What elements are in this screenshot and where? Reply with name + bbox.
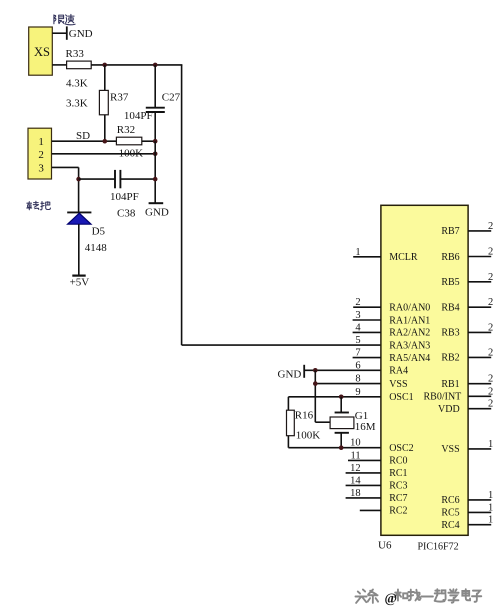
wire R32 right bbox=[142, 140, 155, 142]
svg-text:OSC2: OSC2 bbox=[389, 443, 413, 454]
capacitor C38 bbox=[79, 170, 156, 188]
svg-text:22: 22 bbox=[488, 374, 493, 385]
pin 24 RB3 bbox=[441, 322, 493, 338]
pin 20 VDD bbox=[438, 399, 493, 415]
svg-text:12: 12 bbox=[350, 463, 361, 474]
svg-text:25: 25 bbox=[488, 297, 493, 308]
svg-text:R32: R32 bbox=[117, 124, 135, 136]
svg-text:RC2: RC2 bbox=[389, 506, 407, 517]
crystal G1 16M bbox=[330, 397, 354, 448]
node: crystal bottom junction bbox=[339, 445, 344, 450]
svg-text:28: 28 bbox=[488, 221, 493, 232]
node: crystal top junction bbox=[339, 395, 344, 400]
svg-text:R37: R37 bbox=[110, 91, 129, 103]
node: R37 bottom junction bbox=[103, 139, 108, 144]
wire R33 to node row, corner down the long net bbox=[91, 65, 381, 345]
label 限速 (speed-limit) bbox=[54, 14, 75, 24]
resistor R32 bbox=[116, 137, 141, 145]
pin 17 RC6 bbox=[441, 490, 493, 506]
svg-text:RC7: RC7 bbox=[389, 493, 407, 504]
svg-text:3: 3 bbox=[355, 310, 360, 321]
svg-text:GND: GND bbox=[278, 369, 302, 381]
pin 22 RB1 bbox=[441, 374, 493, 390]
diode D5 (4148) bbox=[67, 212, 91, 275]
pin 14 RC3 bbox=[346, 475, 408, 491]
node: C38 right junction bbox=[153, 177, 158, 182]
svg-text:PIC16F72: PIC16F72 bbox=[418, 541, 459, 552]
svg-text:4: 4 bbox=[355, 322, 361, 333]
pin 2 RA0/AN0 bbox=[353, 297, 430, 313]
pin 12 RC1 bbox=[346, 463, 408, 479]
svg-text:104PF: 104PF bbox=[124, 110, 153, 122]
capacitor C27 bbox=[146, 65, 165, 141]
svg-text:6: 6 bbox=[355, 360, 360, 371]
svg-text:MCLR: MCLR bbox=[389, 252, 418, 263]
pin 23 RB2 bbox=[441, 347, 493, 363]
svg-text:5: 5 bbox=[355, 335, 360, 346]
node: C27 top junction bbox=[153, 63, 158, 68]
wire R37 top bbox=[104, 65, 106, 91]
power symbol GND (top, at XS) bbox=[52, 26, 67, 39]
svg-text:RA1/AN1: RA1/AN1 bbox=[389, 315, 430, 326]
label 转把 (throttle) bbox=[27, 201, 51, 209]
svg-text:RB5: RB5 bbox=[441, 277, 459, 288]
node: pin2 row junction bbox=[153, 152, 158, 157]
node: RA4 gnd junction bbox=[313, 368, 318, 373]
svg-text:R16: R16 bbox=[295, 409, 314, 421]
svg-text:7: 7 bbox=[355, 348, 360, 359]
svg-text:4.3K: 4.3K bbox=[66, 78, 88, 90]
svg-text:100K: 100K bbox=[296, 429, 321, 441]
node: VSS gnd junction bbox=[313, 381, 318, 386]
pin 8 VSS bbox=[355, 374, 407, 390]
svg-text:R33: R33 bbox=[66, 48, 85, 60]
svg-text:20: 20 bbox=[488, 399, 493, 410]
wire pin1 row to R32 bbox=[52, 140, 117, 142]
pin 7 RA5/AN4 bbox=[353, 348, 431, 364]
svg-text:2: 2 bbox=[355, 297, 360, 308]
svg-text:16: 16 bbox=[488, 502, 493, 513]
pin 18 RC7 bbox=[346, 488, 408, 504]
svg-text:23: 23 bbox=[488, 347, 493, 358]
svg-text:RB3: RB3 bbox=[441, 328, 459, 339]
svg-text:24: 24 bbox=[488, 322, 493, 333]
svg-text:+5V: +5V bbox=[70, 276, 90, 288]
svg-text:G1: G1 bbox=[355, 410, 368, 422]
pin 6 RA4 bbox=[355, 360, 408, 376]
connector 1-2-3 (throttle) bbox=[28, 128, 52, 179]
svg-text:RA0/AN0: RA0/AN0 bbox=[389, 303, 430, 314]
svg-text:VSS: VSS bbox=[389, 379, 407, 390]
ground symbol (C38 net) bbox=[149, 202, 164, 204]
svg-text:GND: GND bbox=[145, 207, 169, 219]
resistor R37 bbox=[99, 90, 108, 114]
svg-text:RC0: RC0 bbox=[389, 456, 407, 467]
vertical net C27..GND bbox=[154, 141, 156, 203]
resistor R16 bbox=[287, 410, 295, 436]
pin 28 RB7 bbox=[441, 221, 493, 237]
svg-text:2: 2 bbox=[38, 149, 44, 161]
svg-text:U6: U6 bbox=[378, 540, 392, 552]
pin 4 RA2/AN2 bbox=[353, 322, 431, 338]
power symbol GND (MCU) bbox=[304, 365, 381, 378]
pin 10 OSC2 bbox=[350, 438, 414, 454]
svg-text:19: 19 bbox=[488, 439, 493, 450]
connector XS bbox=[29, 27, 53, 75]
pin 19 VSS bbox=[441, 439, 493, 455]
IC U6 PIC16F72 body bbox=[381, 205, 468, 535]
svg-text:27: 27 bbox=[488, 247, 493, 258]
svg-text:RB2: RB2 bbox=[441, 353, 459, 364]
node: R33/R37 junction bbox=[102, 63, 107, 68]
svg-text:26: 26 bbox=[488, 272, 493, 283]
svg-text:RA5/AN4: RA5/AN4 bbox=[389, 353, 430, 364]
svg-text:3: 3 bbox=[38, 163, 44, 175]
svg-text:3.3K: 3.3K bbox=[66, 98, 88, 110]
svg-text:1: 1 bbox=[355, 247, 360, 258]
svg-text:1: 1 bbox=[38, 136, 44, 148]
pin 15 RC4 bbox=[441, 515, 493, 531]
resistor R33 bbox=[67, 61, 92, 69]
svg-text:RB6: RB6 bbox=[441, 252, 459, 263]
pin 25 RB4 bbox=[441, 297, 493, 313]
pin 5 RA3/AN3 bbox=[355, 335, 430, 351]
svg-text:15: 15 bbox=[488, 515, 493, 526]
svg-text:RA4: RA4 bbox=[389, 366, 408, 377]
wire gnd vertical to crystal case bbox=[315, 370, 330, 422]
svg-text:VDD: VDD bbox=[438, 404, 460, 415]
svg-text:RB7: RB7 bbox=[441, 226, 459, 237]
svg-text:D5: D5 bbox=[92, 225, 106, 237]
svg-text:VSS: VSS bbox=[441, 444, 459, 455]
pin 26 RB5 bbox=[441, 272, 493, 288]
svg-text:10: 10 bbox=[350, 438, 361, 449]
pin 16 RC5 bbox=[441, 502, 493, 518]
wire pin2 row bbox=[52, 153, 155, 155]
svg-text:RA2/AN2: RA2/AN2 bbox=[389, 328, 430, 339]
svg-text:18: 18 bbox=[350, 488, 361, 499]
wire pin3 row bbox=[52, 167, 79, 212]
svg-text:SD: SD bbox=[76, 130, 90, 142]
svg-text:GND: GND bbox=[69, 28, 93, 40]
svg-text:11: 11 bbox=[350, 450, 360, 461]
wire VSS row bbox=[315, 383, 381, 385]
svg-text:21: 21 bbox=[488, 386, 493, 397]
svg-text:RC6: RC6 bbox=[441, 495, 459, 506]
svg-text:XS: XS bbox=[34, 45, 50, 59]
svg-text:RA3/AN3: RA3/AN3 bbox=[389, 340, 430, 351]
node: R32 right junction bbox=[153, 139, 158, 144]
svg-text:RB1: RB1 bbox=[441, 379, 459, 390]
pin 9 OSC1 bbox=[355, 387, 413, 403]
wire XS to R33 bbox=[52, 64, 66, 66]
svg-text:14: 14 bbox=[350, 475, 361, 486]
svg-text:16M: 16M bbox=[355, 421, 376, 433]
power symbol +5V bbox=[72, 275, 85, 277]
svg-text:OSC1: OSC1 bbox=[389, 392, 413, 403]
svg-text:RB4: RB4 bbox=[441, 303, 459, 314]
svg-text:RB0/INT: RB0/INT bbox=[424, 392, 462, 403]
svg-text:C27: C27 bbox=[162, 91, 181, 103]
wire R16 bottom / OSC2 row bbox=[288, 436, 381, 448]
wire OSC1 row bbox=[288, 397, 381, 410]
watermark 头条@和我一起学电子 bbox=[355, 589, 481, 603]
pin 27 RB6 bbox=[441, 247, 493, 263]
svg-text:8: 8 bbox=[355, 374, 360, 385]
pin 11 RC0 bbox=[348, 450, 408, 466]
svg-text:RC4: RC4 bbox=[441, 520, 459, 531]
svg-text:RC5: RC5 bbox=[441, 508, 459, 519]
svg-text:104PF: 104PF bbox=[110, 191, 139, 203]
svg-text:@: @ bbox=[385, 591, 398, 606]
pin 1 MCLR bbox=[353, 247, 418, 263]
svg-text:9: 9 bbox=[355, 387, 360, 398]
node: pin3/D5/C38 junction bbox=[76, 177, 81, 182]
svg-text:4148: 4148 bbox=[85, 242, 108, 254]
svg-text:RC3: RC3 bbox=[389, 481, 407, 492]
pin 21 RB0/INT bbox=[424, 386, 493, 402]
pin 3 RA1/AN1 bbox=[353, 310, 431, 326]
wire R37 bottom bbox=[104, 115, 106, 141]
svg-text:C38: C38 bbox=[117, 207, 136, 219]
svg-text:17: 17 bbox=[488, 490, 493, 501]
svg-text:RC1: RC1 bbox=[389, 468, 407, 479]
pin 13 RC2 bbox=[360, 506, 408, 517]
